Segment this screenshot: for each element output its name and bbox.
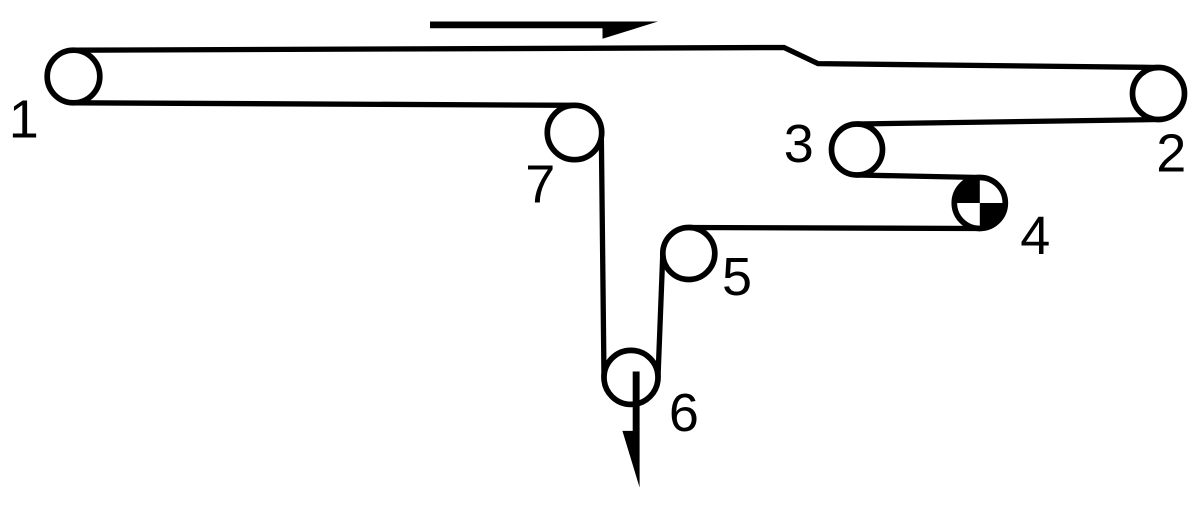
roller 1 (47, 50, 100, 103)
svg-text:2: 2 (1156, 124, 1186, 184)
svg-text:4: 4 (1020, 206, 1050, 266)
wire web span: roller 1 bottom to roller 7 top (74, 103, 575, 106)
roller 4 (driven roller symbol with filled quadrants) (954, 178, 1005, 229)
roller 3 (832, 124, 883, 175)
roller 6 (604, 350, 658, 404)
exit arrow (down, from roller 6) (622, 372, 639, 488)
svg-text:3: 3 (784, 114, 814, 174)
roller 2 (1133, 68, 1185, 120)
roller 7 (547, 105, 601, 159)
wire web span: roller 3 bottom to roller 4 top (857, 175, 980, 178)
roller 5 (663, 228, 715, 280)
wire web span: roller 4 bottom to roller 5 top (689, 228, 980, 229)
direction arrow (top, pointing right) (430, 22, 658, 39)
wire web span: roller 5 left down to roller 6 right (658, 254, 663, 378)
wire web span: roller 1 top over bend to roller 2 top (74, 48, 1159, 68)
svg-text:5: 5 (722, 247, 752, 307)
svg-text:1: 1 (9, 90, 39, 150)
svg-text:6: 6 (669, 383, 699, 443)
wire web span: roller 2 bottom to roller 3 top (857, 120, 1159, 125)
wire web span: roller 6 left up to roller 7 right (601, 133, 604, 378)
svg-text:7: 7 (525, 155, 555, 215)
